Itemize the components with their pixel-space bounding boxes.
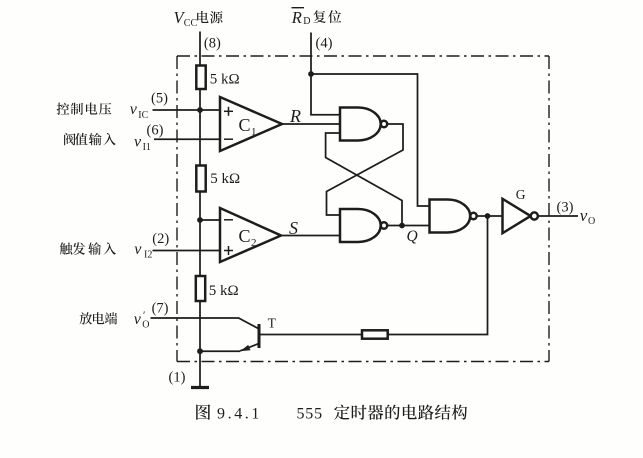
ground symbol [191,386,209,389]
svg-text:R: R [289,106,301,126]
svg-text:S: S [289,218,298,238]
figure caption [196,404,210,419]
svg-text:5 kΩ: 5 kΩ [209,283,239,299]
transistor T base bar [258,324,261,348]
svg-text:(7): (7) [152,301,169,317]
wire G1 output cross-couple to G2 input [327,124,404,215]
svg-text:1: 1 [251,126,257,138]
NAND G2 output bubble [381,222,387,228]
wire pin 5 to comparator C1 + input [153,109,221,111]
svg-text:(1): (1) [169,370,186,386]
node Q [399,223,405,229]
wire R1 to R2 divider segment [199,89,201,166]
wire Rd branch to NAND G3 input [311,74,430,206]
label discharge terminal [80,312,118,324]
wire G3 output to inverter G [477,215,503,217]
svg-text:R: R [291,8,302,27]
wire R4 to transistor base [260,334,362,336]
pin 4 reset lead wire [310,33,312,75]
op-amp comparator C2 [220,208,281,262]
node divider tap 2/3Vcc [197,107,203,113]
node divider tap 1/3Vcc [197,217,203,223]
svg-text:5 kΩ: 5 kΩ [210,71,240,87]
node G3 output / discharge branch [485,213,491,219]
wire R2 to R3 divider segment [199,192,201,277]
label trigger input [60,242,116,255]
svg-text:2: 2 [251,237,257,249]
svg-text:CC: CC [184,18,198,29]
resistor R2 5k body [196,166,205,192]
inverter G output bubble [531,212,538,219]
svg-text:v: v [134,311,142,328]
wire G3 node down to base resistor [388,216,488,335]
svg-text:v: v [134,133,142,150]
svg-text:D: D [303,16,310,27]
wire Rd to NAND G1 input [311,74,340,115]
svg-text:T: T [268,316,277,331]
svg-text:IC: IC [138,110,148,121]
svg-text:O: O [142,320,149,331]
wire pin 2 to comparator C2 + input [153,250,221,252]
IC package boundary (dash-dot box) [177,56,549,362]
svg-text:C: C [239,226,251,246]
wire G2 output Q to NAND G3 [387,225,429,227]
label threshold input [64,133,116,145]
NAND G3 output bubble [470,213,476,219]
junction node on Rd line [308,71,314,77]
svg-text:v: v [130,101,138,118]
wire pin 7 to transistor collector [151,318,259,329]
svg-text:O: O [588,216,595,227]
inverter G triangle [503,199,531,233]
svg-text:I2: I2 [144,250,152,261]
resistor R1 5k body [196,66,205,90]
NAND G1 output bubble [381,121,387,127]
wire output pin 3 [538,215,578,217]
label control voltage [57,103,112,115]
svg-text:G: G [516,187,526,202]
svg-text:(2): (2) [152,231,169,247]
svg-text:9.4.1: 9.4.1 [217,405,262,422]
node emitter/divider/ground junction [197,348,203,354]
svg-text:(8): (8) [204,35,221,51]
transistor emitter with arrow [240,344,259,351]
wire C2 output S to NAND G2 [281,235,340,237]
op-amp comparator C1 [220,97,282,151]
NAND gate G1 (latch upper) [340,108,381,141]
wire R3 to ground segment [199,301,201,388]
svg-text:(5): (5) [151,91,168,107]
svg-text:(4): (4) [316,36,333,52]
resistor R4 base body [362,330,388,338]
pin 8 Vcc lead wire [199,32,201,66]
svg-text:C: C [239,115,251,135]
wire Q cross-couple to G1 input [326,133,402,226]
resistor R3 5k body [196,276,205,301]
NAND gate G2 (latch lower) [340,209,381,242]
NAND gate G3 (output) [430,200,471,233]
wire divider tap to C2 - input [200,219,220,221]
svg-text:555: 555 [297,405,323,422]
svg-text:v: v [580,206,588,225]
svg-text:5 kΩ: 5 kΩ [210,171,240,187]
wire pin 6 to comparator C1 - input [154,138,220,140]
svg-text:v: v [134,241,142,258]
svg-text:Q: Q [407,228,418,245]
svg-text:(6): (6) [147,123,164,139]
svg-text:(3): (3) [557,199,574,215]
wire C1 output R to NAND G1 [282,123,340,125]
svg-text:I1: I1 [143,142,151,153]
